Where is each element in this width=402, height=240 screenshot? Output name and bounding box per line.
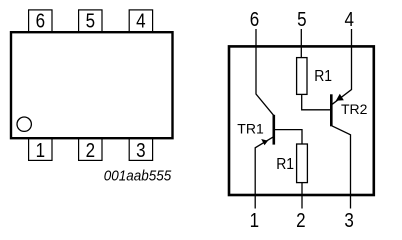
svg-text:1: 1 (250, 209, 259, 232)
svg-text:TR2: TR2 (341, 101, 368, 117)
svg-text:3: 3 (136, 139, 145, 162)
svg-text:5: 5 (86, 9, 95, 32)
svg-text:2: 2 (296, 209, 305, 232)
svg-text:5: 5 (297, 7, 306, 30)
svg-text:R1: R1 (276, 157, 294, 174)
svg-text:2: 2 (86, 139, 95, 162)
svg-text:6: 6 (250, 7, 259, 30)
svg-text:TR1: TR1 (237, 121, 264, 137)
svg-text:6: 6 (36, 9, 45, 32)
svg-text:4: 4 (344, 7, 353, 30)
svg-text:3: 3 (344, 209, 353, 232)
svg-text:001aab555: 001aab555 (104, 167, 172, 184)
svg-text:1: 1 (36, 139, 45, 162)
svg-text:4: 4 (136, 9, 145, 32)
svg-text:R1: R1 (314, 68, 332, 85)
